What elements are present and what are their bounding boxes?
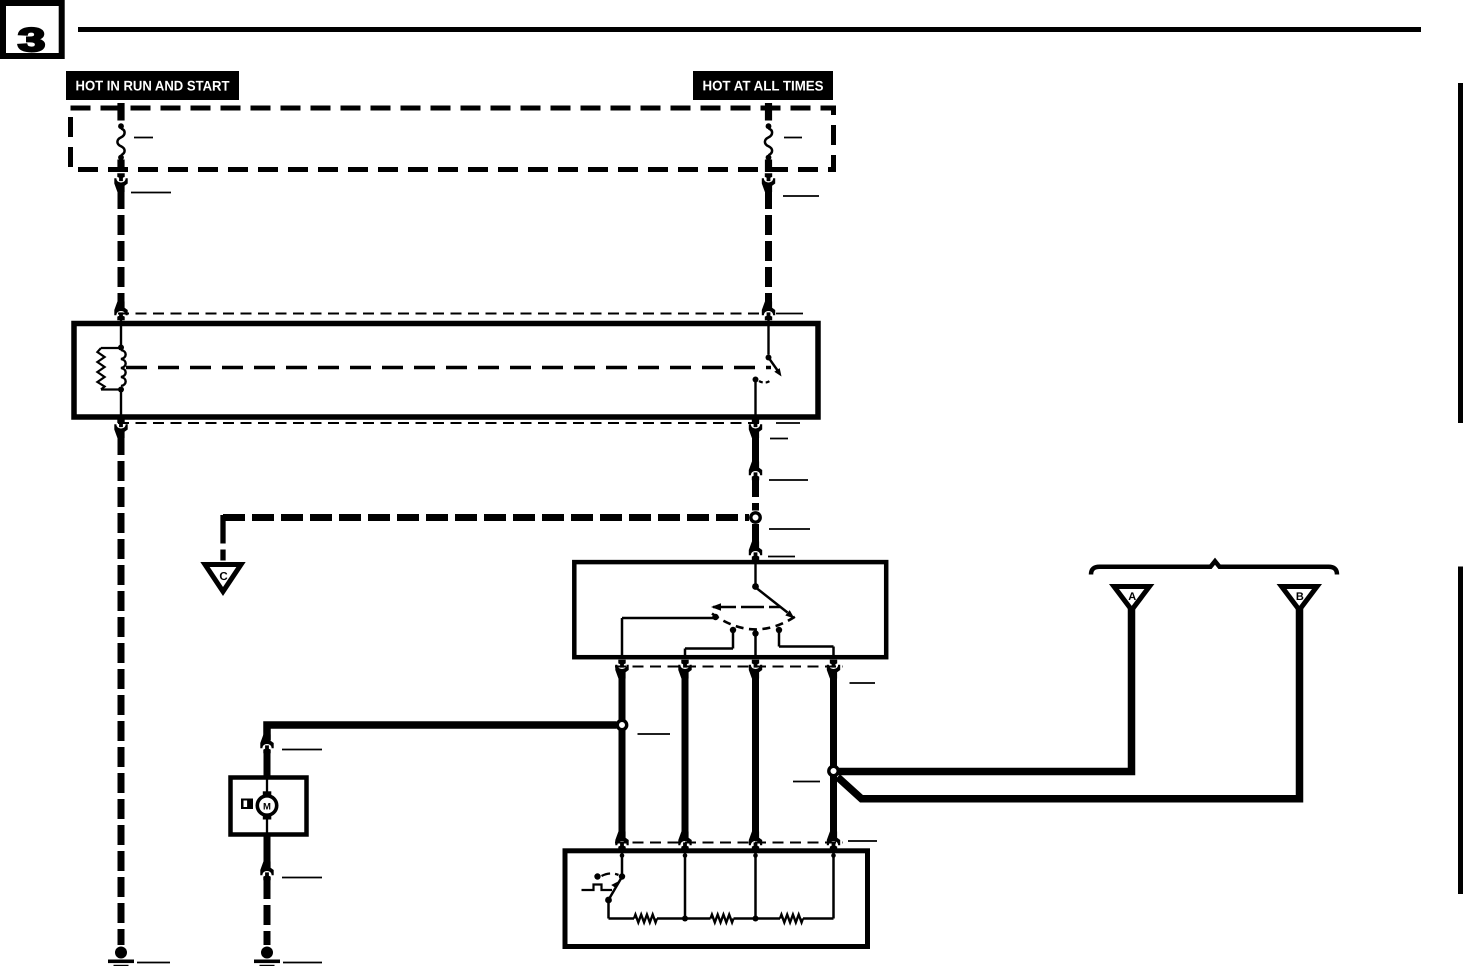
svg-text:HOT IN RUN AND START: HOT IN RUN AND START — [75, 77, 229, 93]
svg-text:C: C — [219, 571, 227, 583]
svg-text:3: 3 — [18, 21, 46, 58]
svg-text:HOT AT ALL TIMES: HOT AT ALL TIMES — [702, 77, 823, 93]
svg-text:M: M — [263, 801, 271, 812]
svg-text:B: B — [1296, 591, 1304, 603]
svg-text:A: A — [1128, 591, 1136, 603]
